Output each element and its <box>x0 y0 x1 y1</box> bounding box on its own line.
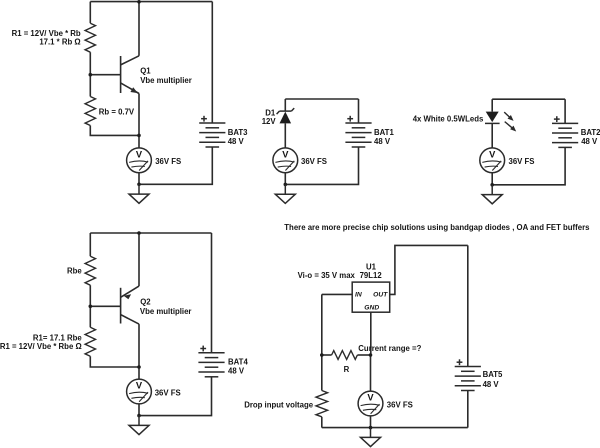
wire top rail c4 <box>90 232 211 234</box>
svg-text:Rbe: Rbe <box>67 266 82 275</box>
svg-text:12V: 12V <box>262 117 277 126</box>
svg-text:BAT5: BAT5 <box>483 370 503 379</box>
ground c2 <box>275 184 295 203</box>
svg-text:48 V: 48 V <box>374 137 391 146</box>
wire voltmeter bottom c3 <box>491 173 493 185</box>
svg-text:Current range =?: Current range =? <box>358 344 421 353</box>
wire top rail c1 <box>90 1 212 3</box>
wire battery BAT2 return <box>492 147 565 184</box>
svg-text:36V FS: 36V FS <box>509 157 535 166</box>
svg-text:48 V: 48 V <box>228 137 245 146</box>
svg-text:GND: GND <box>364 304 379 311</box>
node junction top c4 <box>137 231 141 235</box>
wire battery BAT4 top <box>211 233 213 353</box>
LED D (4x white) <box>485 112 516 132</box>
node junction ground c4 <box>137 414 141 418</box>
wire battery BAT1 top <box>358 99 360 123</box>
svg-text:48 V: 48 V <box>483 380 500 389</box>
voltmeter V c1 <box>127 148 152 173</box>
resistor R (c5, horizontal) <box>332 351 358 360</box>
svg-text:Vi-o = 35 V max: Vi-o = 35 V max <box>298 271 356 280</box>
svg-text:R: R <box>344 365 350 374</box>
svg-text:Vbe multiplier: Vbe multiplier <box>140 76 192 85</box>
wire battery BAT1 return <box>285 147 358 184</box>
wire zener to voltmeter c2 <box>284 123 286 148</box>
svg-text:U1: U1 <box>366 263 377 272</box>
wire emitter Q1 <box>138 94 140 136</box>
wire LED top c3 <box>491 99 493 111</box>
resistor R1 (c4) <box>85 327 95 356</box>
svg-text:BAT2: BAT2 <box>581 128 600 137</box>
wire battery BAT3 return <box>139 147 212 184</box>
wire battery BAT3 top <box>211 2 213 123</box>
wire OUT pin riser <box>390 245 468 294</box>
svg-text:OUT: OUT <box>373 292 388 299</box>
node junction R right <box>369 353 373 357</box>
wire left branch lower c4 <box>90 356 139 367</box>
svg-text:36V FS: 36V FS <box>155 157 181 166</box>
wire IN pin <box>322 293 352 295</box>
wire voltmeter top c4 <box>138 367 140 379</box>
wire left branch lower c5 <box>321 417 323 428</box>
wire battery BAT5 top <box>467 245 469 366</box>
resistor drop (c5, vertical) <box>316 391 328 417</box>
resistor R1 (c1) <box>85 23 95 52</box>
wire top rail c2 <box>285 98 358 100</box>
svg-text:79L12: 79L12 <box>360 271 383 280</box>
node junction ground c2 <box>284 183 288 187</box>
node junction bottom c4 <box>137 365 141 369</box>
wire voltmeter bottom c4 <box>138 404 140 416</box>
wire top rail c3 <box>492 98 565 100</box>
wire LED to voltmeter c3 <box>491 123 493 148</box>
node junction base c1 <box>89 73 93 77</box>
resistor Rbe (c4) <box>85 256 95 285</box>
voltmeter V c3 <box>480 148 505 173</box>
zener diode D1 <box>277 108 295 123</box>
wire battery BAT2 top <box>564 99 566 123</box>
battery BAT2 <box>552 116 578 147</box>
resistor Rb (c1) <box>85 97 95 126</box>
wire bottom rail c5 <box>322 427 468 429</box>
wire GND to voltmeter <box>370 355 372 392</box>
svg-text:17.1 * Rb Ω: 17.1 * Rb Ω <box>39 38 80 47</box>
svg-text:36V FS: 36V FS <box>387 401 413 410</box>
svg-text:36V FS: 36V FS <box>155 388 181 397</box>
wire collector Q1 <box>138 2 140 56</box>
svg-text:R1 = 12V/ Vbe * Rbe Ω: R1 = 12V/ Vbe * Rbe Ω <box>0 342 82 351</box>
wire zener top c2 <box>284 99 286 111</box>
wire battery BAT5 bottom <box>467 391 469 428</box>
svg-text:48 V: 48 V <box>228 367 245 376</box>
battery BAT1 <box>345 116 371 147</box>
wire GND pin <box>370 312 372 355</box>
transistor Q2 <box>121 286 139 324</box>
svg-text:There are more precise chip so: There are more precise chip solutions us… <box>284 223 590 232</box>
wire battery BAT4 return <box>139 377 212 416</box>
svg-text:Q2: Q2 <box>140 298 151 307</box>
wire voltmeter bottom c2 <box>284 173 286 185</box>
wire collector Q2 <box>138 324 140 367</box>
svg-text:Rb = 0.7V: Rb = 0.7V <box>99 108 135 117</box>
wire left branch lower c1 <box>90 126 139 136</box>
wire voltmeter top c1 <box>138 135 140 148</box>
battery BAT4 <box>198 346 224 377</box>
node junction ground c5 <box>369 426 373 430</box>
wire base Q1 <box>90 74 120 76</box>
wire voltmeter bottom c1 <box>138 173 140 185</box>
svg-text:BAT4: BAT4 <box>228 358 248 367</box>
transistor Q1 <box>121 56 139 94</box>
svg-text:Drop input voltage: Drop input voltage <box>244 401 314 410</box>
wire left branch upper c1 <box>89 2 91 24</box>
battery BAT5 <box>455 359 481 390</box>
svg-text:IN: IN <box>355 292 362 299</box>
op-amp U1 regulator box <box>352 282 390 312</box>
svg-text:BAT3: BAT3 <box>228 128 248 137</box>
svg-text:48 V: 48 V <box>581 137 598 146</box>
node junction base c4 <box>89 305 93 309</box>
wire base Q2 <box>90 305 120 307</box>
svg-text:BAT1: BAT1 <box>374 128 394 137</box>
svg-text:Vbe multiplier: Vbe multiplier <box>140 307 192 316</box>
node junction R left <box>320 353 324 357</box>
svg-text:R1 = 12V/ Vbe * Rb: R1 = 12V/ Vbe * Rb <box>12 29 81 38</box>
wire left branch upper c5 <box>321 294 323 390</box>
ground c4 <box>129 416 149 435</box>
ground c1 <box>129 184 149 203</box>
voltmeter V c4 <box>127 379 152 404</box>
ground c5 <box>361 428 381 447</box>
voltmeter V c2 <box>273 148 298 173</box>
ground c3 <box>482 185 502 204</box>
svg-text:Q1: Q1 <box>140 66 151 75</box>
svg-text:4x White 0.5WLeds: 4x White 0.5WLeds <box>413 114 484 123</box>
node junction top c1 <box>137 0 141 4</box>
wire emitter Q2 <box>138 233 140 286</box>
wire R right lead <box>357 354 370 356</box>
node junction ground c3 <box>490 183 494 187</box>
svg-text:D1: D1 <box>265 108 276 117</box>
wire left branch mid c1 <box>89 52 91 96</box>
node junction bottom c1 <box>137 134 141 138</box>
svg-text:36V FS: 36V FS <box>301 157 327 166</box>
voltmeter V c5 <box>358 391 383 416</box>
wire left branch upper c4 <box>89 233 91 256</box>
wire R left lead <box>322 354 332 356</box>
battery BAT3 <box>199 116 225 147</box>
wire left branch mid c4 <box>89 285 91 327</box>
node junction ground c1 <box>137 183 141 187</box>
wire voltmeter bottom c5 <box>370 415 372 427</box>
